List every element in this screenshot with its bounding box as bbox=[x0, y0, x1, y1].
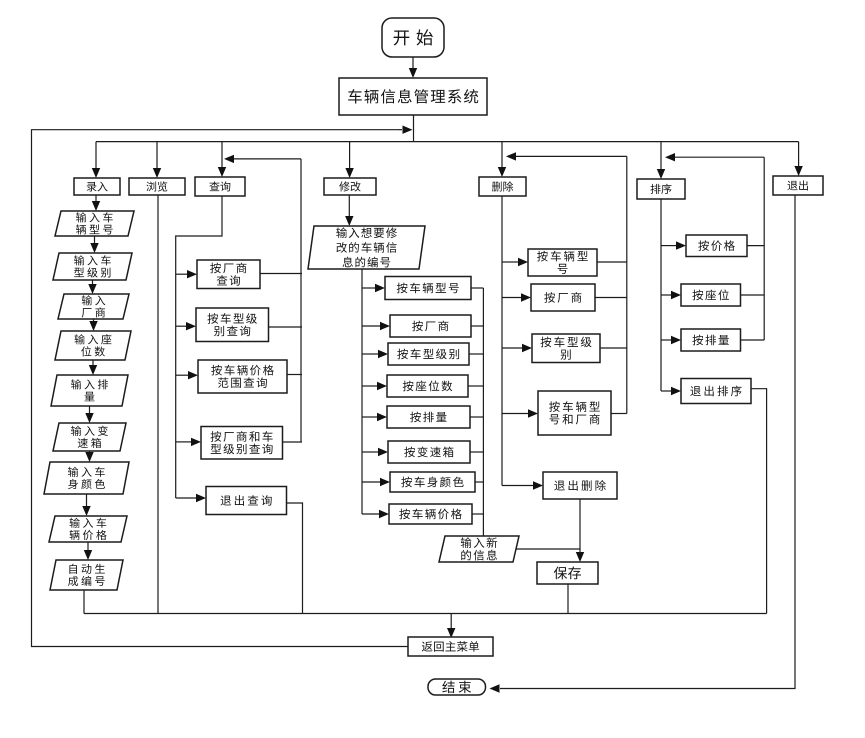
node sort 按排量 bbox=[681, 329, 741, 351]
arrow drop->修改 bbox=[345, 142, 353, 178]
wire 删除 left rail bbox=[501, 196, 503, 486]
arrow drail->按车辆型号和厂商 bbox=[502, 409, 538, 417]
node para 输入厂商 bbox=[58, 294, 129, 319]
wire 按车辆型号->right rail bbox=[471, 287, 483, 289]
node para 输入排量 bbox=[51, 375, 128, 406]
node modify 按排量 bbox=[387, 406, 470, 428]
node menu 浏览 bbox=[129, 178, 185, 195]
wire 按厂商和车型级别查询->return rail bbox=[283, 441, 303, 443]
node modify 按变速箱 bbox=[388, 441, 470, 463]
wire 查询 return rail bbox=[300, 159, 302, 442]
wire sys bottom drop bbox=[413, 115, 415, 142]
wire 按车型级别查询->return rail bbox=[269, 326, 303, 328]
node menu 退出 bbox=[773, 176, 823, 195]
wire 退出排序 exit bbox=[751, 389, 767, 614]
arrow mrail->按车辆价格 bbox=[362, 510, 389, 518]
wire 按价格->return rail bbox=[747, 245, 764, 247]
node node 保存 bbox=[537, 562, 598, 584]
arrow drop->查询 bbox=[218, 142, 226, 177]
node sys 车辆信息管理系统 bbox=[339, 78, 487, 115]
wire 按排量->right rail bbox=[470, 416, 483, 418]
arrow return->查询 bbox=[224, 155, 301, 163]
arrow ->输入排量 bbox=[89, 360, 97, 375]
wire 按厂商->right rail bbox=[471, 325, 483, 327]
node node 返回主菜单 bbox=[408, 637, 493, 656]
wire 按排量->return rail bbox=[741, 339, 765, 341]
node modify 按车辆型号 bbox=[385, 277, 471, 300]
arrow 退出删除->保存 bbox=[576, 499, 584, 562]
arrow ->输入车辆价格 bbox=[82, 494, 90, 516]
arrow ->返回主菜单 bbox=[447, 614, 455, 639]
node modify 按座位数 bbox=[387, 375, 468, 397]
arrow drop->排序 bbox=[657, 142, 665, 179]
arrow rail->按厂商查询 bbox=[176, 270, 197, 278]
node sort 按座位 bbox=[681, 284, 741, 306]
node query 按车型级别查询 bbox=[196, 308, 269, 342]
wire 退出查询 exit bbox=[287, 503, 303, 614]
node menu 录入 bbox=[74, 178, 120, 195]
arrow ->自动生成编号 bbox=[84, 542, 92, 560]
arrow return->删除 bbox=[506, 152, 627, 160]
node node 结束 bbox=[428, 679, 486, 695]
wire 按厂商2->right rail bbox=[595, 297, 627, 299]
wire bottom horizontal bbox=[84, 613, 767, 615]
node menu 排序 bbox=[637, 179, 685, 199]
node menu 查询 bbox=[195, 177, 245, 196]
arrow srail->按排量 bbox=[661, 336, 681, 344]
arrow ->输入车辆型号 bbox=[92, 195, 100, 211]
wire 查询 down-left rail bbox=[176, 196, 222, 498]
arrow srail->按座位 bbox=[661, 291, 681, 299]
wire return loop left bbox=[32, 130, 409, 647]
node para 自动生成编号 bbox=[50, 560, 123, 590]
arrow ->结束 bbox=[490, 684, 501, 692]
arrow ->输入车型级别 bbox=[90, 236, 98, 253]
wire 排序 return rail bbox=[763, 157, 765, 340]
node delete 按车型级别 bbox=[532, 334, 600, 363]
node modify 按车身颜色 bbox=[390, 472, 475, 492]
node modify 按车辆价格 bbox=[389, 504, 472, 524]
wire 按车辆型号2->right rail bbox=[597, 261, 627, 263]
wire 退出->结束 line bbox=[500, 195, 795, 689]
node query 按车辆价格范围查询 bbox=[198, 360, 287, 393]
arrow drail->退出删除 bbox=[502, 481, 543, 489]
node query 按厂商查询 bbox=[197, 260, 260, 289]
arrow rail->按车型级别查询 bbox=[176, 322, 196, 330]
node sort 退出排序 bbox=[681, 379, 751, 404]
wire 按车型级别->right rail bbox=[469, 353, 483, 355]
wire 按车身颜色->right rail bbox=[475, 481, 483, 483]
arrow drop->浏览 bbox=[153, 142, 161, 178]
node delete 退出删除 bbox=[543, 472, 617, 499]
arrow drail->按车型级别2 bbox=[502, 344, 532, 352]
node para 输入车身颜色 bbox=[44, 462, 129, 494]
node start 开始 bbox=[382, 18, 444, 57]
node delete 按车辆型号和厂商 bbox=[538, 391, 611, 435]
arrow drop->退出 bbox=[794, 142, 802, 176]
wire 排序 left rail bbox=[660, 199, 662, 391]
arrow 修改->编号 bbox=[345, 195, 353, 226]
node delete 按车辆型号 bbox=[528, 249, 597, 276]
wire 按厂商查询->return rail bbox=[260, 273, 302, 275]
arrow ->输入厂商 bbox=[88, 280, 96, 294]
wire 浏览 down bbox=[157, 195, 159, 614]
arrow start->sys bbox=[409, 57, 417, 78]
node para 输入车型级别 bbox=[53, 253, 132, 280]
node para 输入变速箱 bbox=[53, 423, 126, 451]
node para 输入座位数 bbox=[55, 331, 131, 360]
arrow ->输入变速箱 bbox=[85, 406, 93, 423]
node menu 删除 bbox=[479, 177, 526, 196]
wire menu line bbox=[96, 141, 799, 143]
node query 按厂商和车型级别查询 bbox=[201, 427, 283, 460]
wire 按车型级别2->right rail bbox=[600, 347, 627, 349]
arrow mrail->按排量 bbox=[362, 413, 387, 421]
arrow rail->退出查询 bbox=[176, 494, 206, 502]
arrow drop->录入 bbox=[92, 142, 100, 178]
arrow srail->退出排序 bbox=[661, 387, 681, 395]
arrow ->输入座位数 bbox=[89, 319, 97, 331]
node para 输入车辆型号 bbox=[55, 211, 134, 236]
arrow mrail->按车型级别 bbox=[362, 350, 388, 358]
arrow drop->删除 bbox=[498, 142, 506, 177]
node para 输入新的信息 bbox=[439, 536, 519, 562]
arrow mrail->按厂商 bbox=[362, 322, 390, 330]
node para 输入想要修改的车辆信息的编号 bbox=[308, 226, 425, 269]
node query 退出查询 bbox=[206, 487, 287, 515]
node modify 按厂商 bbox=[390, 315, 471, 337]
node sort 按价格 bbox=[686, 235, 747, 257]
node delete 按厂商 bbox=[531, 284, 595, 311]
node menu 修改 bbox=[324, 178, 376, 195]
wire 按变速箱->right rail bbox=[470, 451, 483, 453]
wire 按车辆价格范围查询->return rail bbox=[287, 374, 302, 376]
wire 新信息->保存 line bbox=[516, 548, 580, 550]
arrow rail->按车辆价格范围查询 bbox=[176, 371, 198, 379]
wire 按座位数->right rail bbox=[468, 385, 483, 387]
arrow mrail->按车身颜色 bbox=[362, 478, 390, 486]
wire 保存 exit bbox=[567, 584, 569, 614]
arrow loop->sys-drop bbox=[399, 126, 413, 134]
node modify 按车型级别 bbox=[388, 343, 469, 365]
arrow return->排序 bbox=[665, 153, 764, 161]
wire 按车辆价格->right rail bbox=[472, 513, 483, 515]
arrow drail->按车辆型号2 bbox=[502, 258, 528, 266]
arrow ->输入车身颜色 bbox=[85, 451, 93, 462]
wire 录入 exit to bottom bbox=[83, 590, 85, 614]
arrow rail->按厂商和车型级别查询 bbox=[176, 438, 201, 446]
arrow drail->按厂商2 bbox=[502, 293, 531, 301]
wire 按座位->return rail bbox=[741, 294, 765, 296]
node para 输入车辆价格 bbox=[49, 516, 127, 542]
wire 删除 return rail bbox=[626, 156, 628, 413]
arrow mrail->按车辆型号 bbox=[362, 284, 385, 292]
wire 按车辆型号和厂商->right rail bbox=[611, 413, 627, 415]
arrow mrail->按变速箱 bbox=[362, 448, 388, 456]
arrow srail->按价格 bbox=[661, 241, 686, 249]
wire 修改 left rail bbox=[361, 269, 363, 514]
wire 修改 right rail bbox=[482, 288, 484, 536]
arrow mrail->按座位数 bbox=[362, 382, 387, 390]
